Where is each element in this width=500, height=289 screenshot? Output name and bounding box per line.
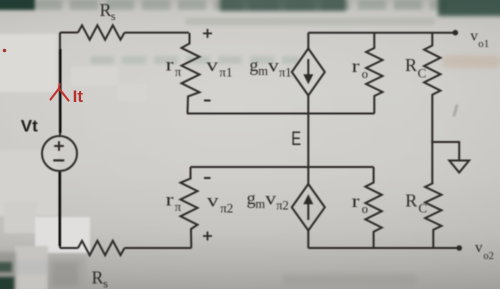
- resistor rpi2: [181, 167, 198, 248]
- faint pencil scribbles bottom-left: [12, 260, 48, 275]
- wire: [60, 32, 78, 34]
- label RC1: [405, 55, 426, 81]
- svg-text:R: R: [405, 55, 417, 75]
- wire: [125, 32, 190, 34]
- faint orange Fun text: [442, 55, 500, 68]
- svg-text:m: m: [258, 64, 268, 78]
- ground: [431, 142, 469, 173]
- faint second text line: [185, 18, 435, 25]
- polarity minus (vpi2): [204, 177, 211, 179]
- svg-text:g: g: [249, 55, 258, 75]
- label RS (top): [100, 0, 116, 23]
- svg-text:R: R: [405, 190, 417, 210]
- label ro1: [352, 56, 368, 81]
- svg-text:R: R: [92, 267, 104, 287]
- resistor ro2: [365, 167, 381, 248]
- resistor rpi1: [182, 33, 200, 114]
- label vpi2: [207, 192, 233, 216]
- wire: [59, 171, 61, 248]
- faint pencil curve right-middle: [452, 104, 458, 117]
- svg-text:o: o: [362, 202, 368, 216]
- label rpi2: [166, 189, 182, 214]
- svg-text:C: C: [418, 200, 427, 215]
- polarity plus (vpi2): [203, 232, 212, 241]
- bleedthrough dark blob bottom-left 1: [0, 262, 12, 272]
- wire: [308, 32, 455, 34]
- annotation red arrow It: [51, 84, 69, 101]
- resistor RS (top): [78, 25, 124, 39]
- svg-text:v: v: [206, 56, 218, 75]
- wire: [125, 247, 192, 249]
- svg-text:π2: π2: [220, 200, 233, 215]
- svg-text:It: It: [73, 87, 84, 106]
- wire: [60, 247, 78, 249]
- bleedthrough dark blob top-left: [0, 0, 35, 10]
- white correction patch stair 2: [117, 84, 147, 101]
- label RC2: [405, 190, 427, 215]
- svg-text:v: v: [470, 29, 478, 45]
- resistor RC2: [425, 183, 441, 248]
- svg-text:g: g: [247, 188, 256, 208]
- faint scribbles: [52, 262, 78, 286]
- resistor ro1: [366, 33, 382, 114]
- label gm vpi2: [247, 188, 289, 212]
- svg-text:π1: π1: [219, 64, 232, 79]
- wire node E: [307, 114, 309, 168]
- white correction patch stair 1: [71, 67, 118, 86]
- faint mid text line: [90, 56, 300, 64]
- svg-text:R: R: [100, 0, 112, 20]
- current source U2 gm*vpi2: [292, 167, 325, 248]
- shade right of light column: [48, 256, 86, 289]
- bright white patch over bottom wire: [35, 217, 90, 253]
- wire: [191, 166, 374, 168]
- label vo1: [470, 29, 489, 51]
- svg-text:s: s: [111, 9, 116, 23]
- svg-text:v: v: [207, 192, 219, 211]
- svg-text:r: r: [352, 56, 360, 76]
- wire: [187, 113, 374, 115]
- white correction patch left-top: [0, 34, 57, 92]
- label vo2: [475, 240, 494, 262]
- node vo1: [453, 30, 459, 36]
- bleedthrough dark blob top-middle: [220, 0, 346, 11]
- svg-text:v: v: [475, 240, 483, 256]
- light patch bottom-left: [15, 246, 48, 289]
- svg-text:m: m: [255, 197, 265, 211]
- svg-text:v: v: [265, 189, 276, 209]
- annotation red dot: [3, 49, 7, 53]
- svg-text:o2: o2: [483, 251, 494, 262]
- svg-text:o1: o1: [478, 38, 489, 50]
- pen overdraw on left wire (upper): [59, 49, 62, 133]
- svg-text:Vt: Vt: [21, 117, 38, 136]
- polarity plus (vpi1): [203, 29, 212, 38]
- label vpi1: [206, 56, 232, 79]
- voltage source Vt: [42, 136, 77, 171]
- svg-text:r: r: [166, 189, 174, 209]
- wire: [431, 97, 433, 183]
- bleedthrough text band top: [34, 0, 448, 10]
- label gm vpi1: [249, 55, 291, 79]
- polarity minus (vpi1): [204, 100, 211, 102]
- label RS (bottom): [92, 267, 109, 289]
- label ro2: [352, 191, 368, 216]
- wire: [59, 33, 61, 137]
- svg-text:r: r: [166, 54, 174, 74]
- svg-text:π2: π2: [276, 198, 289, 212]
- svg-text:v: v: [268, 56, 279, 76]
- svg-text:o: o: [362, 67, 368, 81]
- svg-text:E: E: [291, 128, 301, 149]
- label rpi1: [166, 54, 182, 79]
- svg-text:π1: π1: [279, 65, 292, 79]
- svg-text:π: π: [175, 200, 182, 214]
- bleedthrough dark blob bottom-left 2: [0, 277, 14, 289]
- svg-text:C: C: [418, 66, 427, 81]
- shade column bottom-left edge: [0, 252, 16, 289]
- bleedthrough dark blob top-right: [438, 0, 500, 16]
- resistor RC1: [424, 33, 440, 97]
- light patch left small: [4, 202, 37, 233]
- svg-text:s: s: [103, 276, 108, 289]
- pen overdraw on left wire (lower): [58, 172, 61, 246]
- current source U1 gm*vpi1: [292, 33, 325, 114]
- light patch left-middle: [0, 150, 58, 216]
- wire: [308, 247, 459, 249]
- svg-text:π: π: [175, 65, 182, 79]
- faint smudge bottom-center: [282, 274, 417, 285]
- svg-text:r: r: [352, 191, 360, 211]
- resistor RS (bottom): [78, 241, 124, 255]
- node vo2: [456, 245, 462, 251]
